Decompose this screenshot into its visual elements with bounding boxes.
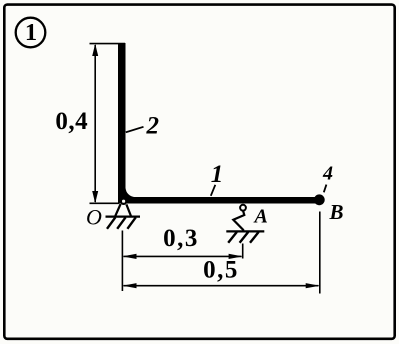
dimension 0,5 arrow left xyxy=(122,283,136,288)
label 1 leader xyxy=(211,185,216,196)
dimension 0,3 arrow left xyxy=(122,254,136,259)
pin O circle xyxy=(121,199,126,204)
dimension left extension line xyxy=(121,231,123,292)
svg-text:B: B xyxy=(329,200,344,224)
support O ground line xyxy=(106,216,141,218)
dimension 0,4 arrow down xyxy=(92,191,98,203)
support A zigzag link xyxy=(233,211,244,232)
svg-text:0,4: 0,4 xyxy=(55,108,88,135)
corner fillet xyxy=(126,188,135,197)
support A ground line xyxy=(226,230,264,232)
svg-text:1: 1 xyxy=(25,19,37,46)
support O hatching xyxy=(107,217,136,229)
svg-text:1: 1 xyxy=(211,161,224,188)
support O triangle xyxy=(115,204,131,216)
dimension 0,5 line xyxy=(124,285,319,287)
dimension 0,4 arrow up xyxy=(92,44,98,56)
label 4 leader xyxy=(324,185,327,193)
dimension 0,4 line xyxy=(94,45,96,202)
svg-text:2: 2 xyxy=(146,113,160,140)
member 2 (vertical bar) xyxy=(118,43,126,204)
label 2 leader xyxy=(126,127,144,133)
svg-text:0,3: 0,3 xyxy=(163,225,199,252)
svg-text:A: A xyxy=(253,206,268,228)
svg-text:O: O xyxy=(86,205,102,230)
support A pin circle xyxy=(240,205,246,211)
dimension 0,3 line xyxy=(124,255,242,257)
dimension 0,3 arrow right xyxy=(229,254,243,259)
dimension 0,5 right extension xyxy=(319,212,321,294)
dimension 0,3 right extension xyxy=(242,244,244,259)
badge circle 1 xyxy=(16,18,46,48)
member 1 (horizontal bar) xyxy=(118,197,319,204)
node B dot xyxy=(314,194,325,205)
dimension 0,5 arrow right xyxy=(306,283,320,288)
svg-text:4: 4 xyxy=(322,163,333,185)
dimension 0,4 extension top xyxy=(90,43,126,45)
svg-text:0,5: 0,5 xyxy=(203,257,239,284)
support A hatching xyxy=(228,232,258,243)
dimension 0,4 extension bottom xyxy=(90,202,120,204)
